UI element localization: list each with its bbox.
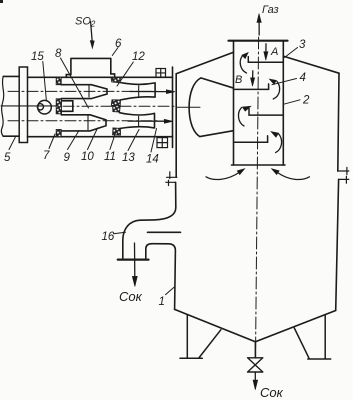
leader 13 [128, 130, 139, 151]
lower nozzle tick [87, 116, 89, 130]
leader 3 [285, 48, 298, 58]
center line [256, 37, 259, 357]
elbow flange [118, 259, 149, 261]
tank wall jog at elbow [146, 244, 176, 310]
svg-text:5: 5 [4, 152, 11, 164]
sight-glass circle 15 [38, 100, 52, 114]
leader 1 [166, 287, 175, 294]
svg-text:12: 12 [132, 51, 145, 63]
upper venturi tick [138, 86, 140, 97]
curl arrow at baffle6 lip [276, 134, 282, 153]
leader 7 [49, 134, 55, 149]
bottom circulation arrow left [206, 173, 239, 180]
upper venturi 12 tube [120, 83, 155, 100]
tank top-right slope [284, 56, 339, 73]
housing bottom wall [28, 136, 173, 138]
upper venturi holder wedge top [111, 77, 121, 82]
leader 4 [272, 79, 297, 85]
svg-text:2: 2 [302, 95, 310, 107]
baffle 5 [249, 109, 283, 116]
middle axis dash-dot [63, 105, 174, 107]
lower axis dash-dot [8, 120, 158, 122]
bottom circulation arrow right [278, 173, 310, 180]
housing right flange plate [172, 67, 174, 148]
upper axis dash-dot [8, 90, 160, 92]
leader 2 [284, 100, 300, 104]
leader 5 [9, 137, 16, 150]
lower venturi holder wedge top [113, 105, 121, 112]
upper nozzle tick [88, 86, 90, 97]
juice outlet arrow [134, 243, 136, 278]
curl arrow at baffle3 lip [240, 56, 246, 73]
leader 9 [68, 131, 80, 150]
valve outlet arrow [254, 372, 256, 381]
svg-text:Сок: Сок [119, 289, 143, 304]
pipe 5 break line [1, 76, 3, 136]
svg-text:16: 16 [102, 231, 115, 243]
nozzle mounting plate hatched bottom [56, 130, 61, 137]
svg-text:3: 3 [299, 39, 306, 51]
svg-text:9: 9 [64, 152, 71, 164]
svg-text:14: 14 [146, 154, 159, 166]
lower venturi tick [138, 116, 140, 125]
lower venturi 13/14 tube [120, 113, 155, 129]
curl arrow at baffle5 lip [238, 108, 244, 126]
baffle 4 [234, 84, 269, 90]
svg-text:А: А [270, 46, 278, 58]
horn axis line [177, 106, 201, 108]
bolt symbol top [156, 69, 166, 78]
baffle 6 [234, 136, 268, 143]
outlet elbow 16 outer [123, 208, 176, 259]
upper venturi holder wedge bottom [111, 100, 120, 106]
left leg [180, 315, 221, 358]
flange of pipe 5 [19, 67, 27, 143]
SO2 arrow [91, 22, 93, 42]
tank right wall [336, 73, 339, 310]
column bottom [232, 164, 286, 166]
center line through circle [1, 105, 57, 107]
leader 10 [88, 128, 98, 150]
down arrow A [265, 44, 267, 53]
tank left wall upper [175, 74, 177, 177]
down arrow B [252, 71, 254, 79]
valve [248, 358, 263, 372]
nozzle mounting plate hatched middle [56, 99, 61, 114]
column left wall [233, 42, 235, 165]
lower jet arrow [128, 120, 165, 122]
left wall flange joint [166, 172, 177, 186]
leader 6 [112, 48, 118, 56]
right wall flange joint [338, 167, 349, 183]
tank top-left slope [176, 52, 233, 73]
pipe 5 body [3, 76, 19, 136]
svg-text:Газ: Газ [262, 4, 279, 16]
svg-text:10: 10 [81, 151, 94, 163]
svg-text:4: 4 [300, 72, 306, 84]
leader 12 [117, 62, 133, 86]
gas up arrow [258, 22, 260, 36]
middle pilot tube 8 [62, 101, 73, 112]
inlet horn into column [189, 78, 233, 137]
svg-text:11: 11 [104, 151, 116, 163]
leader 11 [110, 132, 116, 150]
upper jet arrow [130, 91, 168, 93]
svg-text:7: 7 [43, 150, 50, 162]
bolt symbol bottom [157, 138, 168, 148]
curl arrow at baffle4 lip [273, 81, 279, 99]
tank bottom cone [175, 309, 336, 341]
svg-text:13: 13 [122, 152, 135, 164]
lower venturi holder wedge bottom [113, 128, 121, 135]
nozzle mounting plate hatched top [56, 77, 61, 84]
svg-text:6: 6 [115, 38, 122, 50]
leader 16 [114, 232, 126, 234]
svg-text:15: 15 [31, 51, 44, 63]
column top lip [229, 40, 288, 42]
small circle on sight glass [37, 104, 43, 110]
svg-text:1: 1 [159, 296, 165, 308]
right leg [294, 315, 330, 359]
housing top wall [28, 76, 173, 78]
svg-text:В: В [235, 74, 242, 86]
column right wall [282, 42, 284, 165]
lower nozzle [61, 115, 106, 131]
svg-text:Сок: Сок [260, 385, 284, 400]
upper nozzle 9/10 [61, 85, 107, 99]
leader 8 [61, 58, 89, 108]
tank left wall mid [175, 182, 177, 207]
baffle 3 [248, 57, 283, 63]
outlet elbow 16 inner line [148, 231, 181, 233]
SO2 inlet duct 6 [66, 58, 114, 77]
leader 14 [151, 129, 157, 153]
scan corner mark [0, 0, 3, 3]
leader 15 [43, 62, 47, 101]
valve stem [254, 342, 256, 358]
